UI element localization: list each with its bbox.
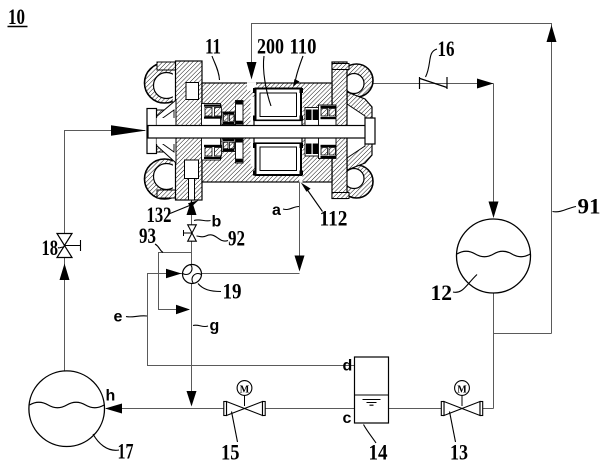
svg-text:g: g (210, 318, 220, 335)
svg-text:h: h (106, 388, 116, 405)
svg-text:11: 11 (205, 34, 221, 59)
svg-text:19: 19 (223, 279, 242, 304)
svg-text:14: 14 (369, 440, 388, 465)
svg-text:c: c (343, 410, 352, 427)
svg-text:M: M (457, 385, 467, 396)
svg-text:17: 17 (118, 439, 134, 464)
svg-text:16: 16 (438, 36, 455, 61)
svg-text:15: 15 (221, 440, 240, 465)
svg-text:110: 110 (290, 34, 317, 59)
svg-text:10: 10 (8, 4, 25, 29)
svg-text:12: 12 (431, 280, 453, 305)
svg-text:M: M (240, 385, 250, 396)
svg-text:18: 18 (42, 235, 59, 260)
svg-text:93: 93 (139, 223, 156, 248)
svg-text:200: 200 (257, 34, 284, 59)
svg-text:92: 92 (228, 226, 245, 251)
svg-text:d: d (343, 358, 353, 375)
svg-text:b: b (212, 214, 222, 231)
svg-text:91: 91 (578, 194, 601, 219)
svg-text:13: 13 (450, 440, 468, 465)
svg-text:e: e (114, 309, 123, 326)
svg-text:a: a (272, 202, 281, 219)
svg-text:112: 112 (320, 206, 348, 231)
